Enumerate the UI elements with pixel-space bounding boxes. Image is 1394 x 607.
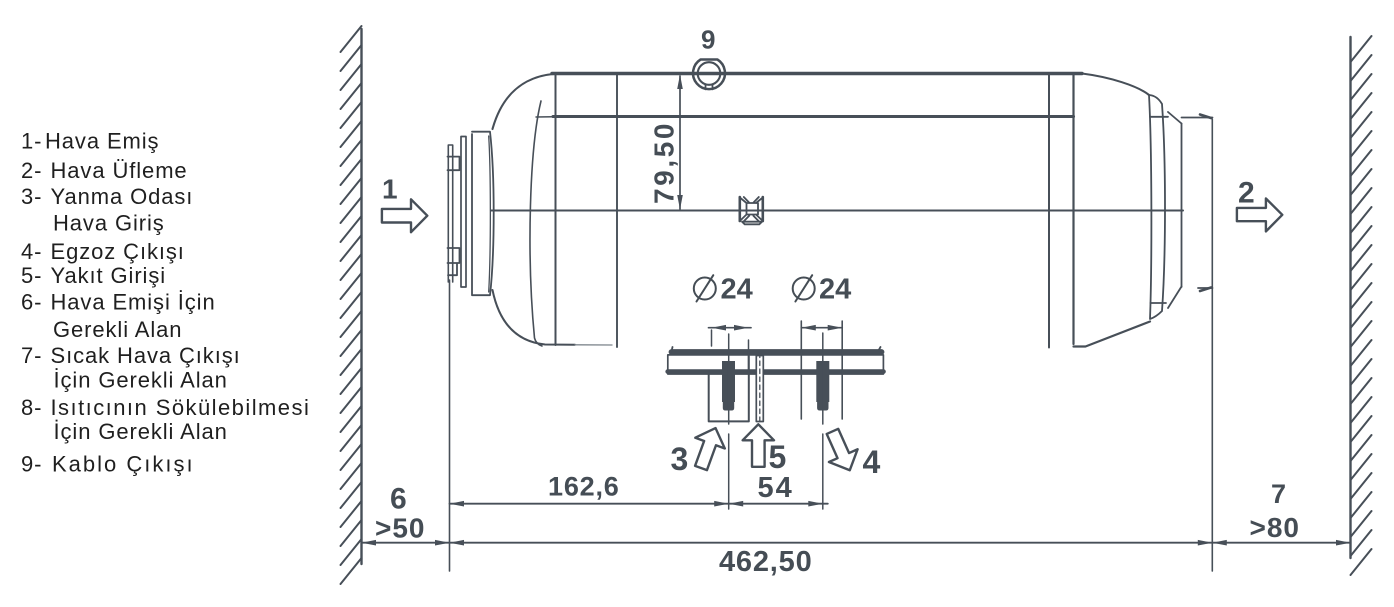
svg-text:Gerekli Alan: Gerekli Alan [53,317,182,342]
left wall line [360,29,362,564]
svg-text:5: 5 [769,439,787,475]
connector face plate [461,137,466,288]
svg-text:6: 6 [390,483,407,516]
outlet lip ticks [1200,115,1211,292]
fuel pipe [756,356,763,422]
right top bell curve [1082,74,1149,96]
dim 79,50 line [672,74,680,209]
left top bell curve [493,74,554,129]
right cone face [1149,95,1165,319]
svg-text:6-: 6- [21,290,42,315]
svg-text:54: 54 [758,472,794,504]
right wall hatching [1351,36,1372,575]
flow arrow 2 [1237,199,1282,232]
dim 162,6 arrows [450,501,729,507]
inner shoulder line [530,101,542,346]
mounting plate top bar [672,349,882,355]
LEGEND [21,129,310,477]
dim >80 arrows [1212,540,1350,546]
svg-text:2-: 2- [21,158,42,183]
left wall hatching [341,26,362,584]
svg-text:7: 7 [1271,479,1286,509]
svg-text:24: 24 [721,274,753,306]
cone face seam ticks [1150,117,1168,303]
dim Ø24 right line [801,327,842,329]
svg-text:Sıcak Hava Çıkışı: Sıcak Hava Çıkışı [51,343,241,368]
svg-text:3: 3 [671,441,689,477]
right stud center line [822,333,824,509]
right extension line [1211,119,1213,571]
svg-text:9-: 9- [21,452,42,477]
cable grommet outer [693,60,725,90]
heater body bottom left bell [493,290,576,345]
dim 162,6 and 54 line [450,503,828,505]
svg-text:Yanma Odası: Yanma Odası [51,184,194,209]
right stud [816,361,829,411]
heater body left edge [555,74,557,346]
svg-text:Yakıt Girişi: Yakıt Girişi [51,263,167,288]
svg-text:1: 1 [382,174,398,205]
svg-text:Hava Emiş: Hava Emiş [45,129,159,154]
dim 79,50 arrows [677,75,683,210]
bottom dim line [362,542,1351,544]
svg-text:İçin Gerekli Alan: İçin Gerekli Alan [54,368,228,393]
flow arrow 3 [686,423,730,474]
outlet collar [1182,118,1213,289]
mounting plate bottom bar [668,369,884,374]
dim Ø24 left arrows [712,325,749,331]
svg-text:4-: 4- [21,239,42,264]
exhaust extension lines [801,321,842,419]
dim text Ø24 left [694,275,716,301]
combustion air tube [709,356,749,421]
fuel pipe center dashes [759,353,761,426]
svg-text:İçin Gerekli Alan: İçin Gerekli Alan [54,419,228,444]
DIMENSIONS [362,74,1351,545]
DIMTEXT [375,25,1300,579]
left extension line [449,280,451,571]
svg-text:>80: >80 [1250,512,1301,543]
dim >50 arrows [362,540,450,546]
dim text Ø24 right [793,275,815,301]
heater center line [491,209,1183,211]
intake ring top tab [448,157,460,171]
svg-text:Hava Emişi İçin: Hava Emişi İçin [51,290,216,315]
svg-text:>50: >50 [375,513,426,544]
heater body right edge [1048,74,1050,348]
heater body seam line [616,74,618,347]
svg-text:79,50: 79,50 [649,121,680,204]
fuel clamp on center line [740,197,763,221]
heater body bottom line fading tail [575,344,612,346]
intake ring [448,145,452,282]
svg-text:Egzoz Çıkışı: Egzoz Çıkışı [51,239,185,264]
dim 54 arrows [729,501,823,507]
mounting plate end curls [672,347,881,352]
svg-text:8-: 8- [21,395,42,420]
cable grommet inner [698,62,721,85]
cap inner arc [489,136,491,292]
dim 462,50 arrows [450,540,1213,546]
svg-text:Isıtıcının Sökülebilmesi: Isıtıcının Sökülebilmesi [51,395,311,420]
BLOCK ARROWS [382,199,1282,477]
heater body top line [552,72,1082,75]
right wall line [1349,37,1351,558]
left stud [722,361,735,411]
intake dia stub lines [712,330,749,372]
flow arrow 5 [743,424,774,467]
intake ring bottom tab [448,248,460,275]
cone-outlet connectors [1168,112,1182,308]
svg-text:5-: 5- [21,263,42,288]
svg-text:Hava Giriş: Hava Giriş [53,211,165,236]
svg-text:Hava Üfleme: Hava Üfleme [51,158,188,183]
svg-text:9: 9 [701,25,715,55]
svg-text:162,6: 162,6 [548,472,620,502]
svg-text:3-: 3- [21,184,42,209]
dim Ø24 left line [709,327,752,329]
svg-text:462,50: 462,50 [719,546,813,578]
heater body second line [536,116,554,118]
svg-text:4: 4 [863,444,881,480]
svg-text:7-: 7- [21,343,42,368]
mounting plate body [668,355,884,374]
svg-text:2: 2 [1238,176,1255,209]
cable grommet stem [706,84,713,89]
flow arrow 1 [382,199,427,232]
svg-text:Kablo Çıkışı: Kablo Çıkışı [52,452,195,477]
dim Ø24 right arrows [801,325,842,331]
flow arrow 4 [818,425,864,477]
cap disc [472,132,494,296]
svg-text:1-: 1- [21,129,42,154]
left stud center line [728,334,730,509]
svg-text:24: 24 [819,274,851,306]
heater right end ring [1074,74,1151,347]
